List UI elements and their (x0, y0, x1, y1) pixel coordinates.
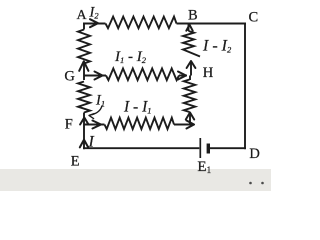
svg-text:I: I (88, 134, 95, 151)
svg-text:G: G (64, 69, 75, 85)
svg-text:F: F (65, 116, 73, 132)
svg-text:D: D (249, 146, 259, 162)
svg-text:B: B (188, 8, 198, 24)
svg-text:A: A (77, 8, 88, 23)
svg-text:I - I2: I - I2 (202, 38, 232, 55)
svg-text:C: C (249, 9, 259, 25)
svg-text:I1: I1 (95, 93, 105, 109)
svg-text:E: E (71, 153, 80, 169)
svg-text:E1: E1 (197, 159, 211, 175)
svg-text:I2: I2 (89, 4, 100, 20)
svg-text:I - I1: I - I1 (123, 99, 152, 116)
svg-text:I1 - I2: I1 - I2 (114, 49, 147, 65)
svg-text:H: H (203, 65, 214, 81)
